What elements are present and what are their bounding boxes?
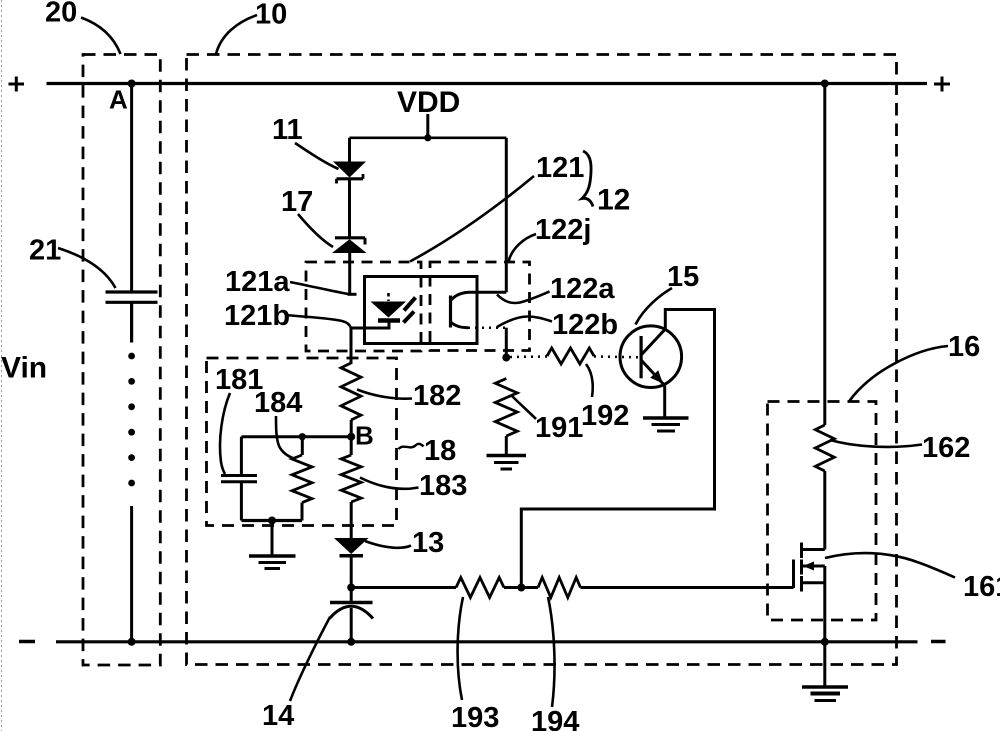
svg-text:122j: 122j [535,214,591,246]
resistor 191 [495,379,517,437]
wire diode 13 to node [350,556,353,588]
MOSFET Q161 [794,543,825,592]
wire resistor 162 to MOSFET drain [823,471,826,550]
node junction dot 193-194 [517,584,525,592]
leader for 17 [298,214,333,247]
svg-text:193: 193 [451,702,499,731]
zener diode 17 [332,238,367,253]
dashed box 121 [306,262,421,351]
wire ground stem [271,521,274,555]
wire 183 to diode 13 [350,502,353,538]
junction dot bottom middle [347,638,355,646]
wire node B horizontal [241,435,351,438]
leader for 121b [286,315,351,328]
LED 121a [371,302,407,321]
svg-text:B: B [355,421,374,451]
leader for 162 [830,440,922,447]
leader for 184 [276,416,294,459]
dotted continuation of cell stack 21 [128,353,135,487]
wire bottom of 181-184 [241,519,302,522]
minus sign left [19,640,35,644]
svg-text:121: 121 [536,152,584,184]
dashed box 10 [187,55,897,665]
wire top rail + [47,82,928,85]
dashed box 20 [83,55,160,666]
wire VDD stem [426,114,429,138]
leader for 122b [497,317,552,328]
wire collector up to VDD bus [505,138,508,292]
leader for 122j [509,234,537,262]
leader for 121a [290,282,348,294]
svg-text:18: 18 [424,435,456,467]
svg-text:20: 20 [45,0,77,29]
diode 11 [333,162,366,184]
brace for 12 [582,151,593,207]
leader for 161 [825,553,955,577]
svg-text:21: 21 [29,235,61,267]
ground below Q15 [643,418,689,431]
resistor 162 [815,425,834,471]
node junction dot above capacitor 14 [347,584,355,592]
transistor Q15 collector [521,310,714,588]
svg-text:183: 183 [419,470,467,502]
leader for 11 [295,143,339,169]
svg-text:121a: 121a [225,266,290,298]
LED light emission rays [404,298,416,323]
transistor Q15 emitter with arrow [641,360,665,386]
leader for 182 [357,390,412,399]
ground below 181-184 [249,556,296,569]
leader for 194 [548,597,555,707]
svg-text:192: 192 [581,400,629,432]
phototransistor collector lead [451,292,507,300]
wire emitter down [505,328,508,358]
node VDD junction dot [424,134,431,141]
leader for 16 [849,346,948,402]
dashed box 122j [430,262,530,351]
wire resistor 191 to ground [505,436,508,454]
leader for 183 [360,478,419,489]
wire dash-dot base line left [510,355,547,358]
svg-text:184: 184 [254,387,302,419]
svg-text:121b: 121b [224,300,290,332]
leader for 191 [512,396,536,419]
svg-text:162: 162 [922,432,970,464]
dashed box 18 [207,358,397,526]
resistor 184 [299,433,306,440]
resistor 183 [341,455,361,502]
svg-text:17: 17 [281,186,313,218]
plus sign left [9,77,25,92]
svg-text:161: 161 [963,571,1000,603]
leader for 181 [220,393,230,474]
LED 121a anode stub [387,293,390,301]
dashed box 16 [768,402,877,621]
leader for 121 [410,176,534,262]
svg-text:16: 16 [948,331,980,363]
resistor 194 [538,578,581,598]
wire bottom rail - [56,640,918,643]
resistor 193 [456,578,504,598]
wire capacitor 21 to bottom rail [130,506,133,642]
leader for 192 [586,364,593,397]
node junction dot ground tap [268,517,276,525]
wire diode 11 to zener 17 [348,179,351,238]
wire VDD horizontal bus [350,137,507,140]
wire node to resistor 193 [351,586,456,589]
MOSFET body arrow [803,562,814,571]
transistor Q15 circle [620,326,682,388]
wire between 193 and 194 [504,586,538,589]
resistor 192 [547,348,594,364]
svg-text:13: 13 [412,527,444,559]
svg-text:122b: 122b [552,309,618,341]
transistor Q15 base bar [639,336,642,378]
ground below MOSFET [802,687,848,701]
svg-text:194: 194 [531,706,579,731]
svg-text:122a: 122a [550,273,615,305]
svg-text:182: 182 [413,380,461,412]
leader for 21 [58,248,116,288]
svg-text:191: 191 [535,412,583,444]
node B junction dot [347,433,355,441]
svg-text:14: 14 [262,700,294,731]
wire gate line from resistor 194 [581,586,794,589]
diode 13 [334,538,369,556]
wire dash-dot base line right [594,355,641,358]
left scan border artifact [1,0,3,731]
capacitor 21 [106,292,158,343]
wire emitter to ground [663,386,666,418]
node emitter junction dot [502,354,510,362]
resistor 182 [341,363,361,420]
wire right branch from top rail [823,84,826,426]
wire 182 to node B to 183 [350,420,353,455]
wire zener 17 to optocoupler LED [348,253,351,294]
plus sign right [934,77,950,92]
wire VDD bus to diode 11 [348,138,351,162]
node A junction dot [128,80,136,88]
leader for 18 [399,444,424,449]
wire MOSFET source to bottom rail [823,566,826,642]
leader for 15 [636,288,673,325]
phototransistor emitter lead [451,322,469,328]
minus sign right [931,640,946,644]
capacitor 181 [240,437,243,474]
junction dot bottom left [128,638,136,646]
svg-text:10: 10 [255,0,287,31]
svg-text:12: 12 [597,184,630,217]
svg-text:A: A [109,85,128,115]
wire bottom rail to ground [823,642,826,686]
leader for 10 [216,15,257,54]
leader for 20 [81,18,121,55]
leader for 193 [458,597,463,700]
phototransistor 122 base bar [449,296,452,328]
leader for 14 [290,617,330,701]
svg-text:11: 11 [272,114,303,146]
optocoupler body U121 solid box [365,277,478,344]
wire node A to capacitor 21 [130,84,133,293]
wire LED cathode down [351,323,389,365]
ground below 191 [487,456,527,470]
capacitor 14 [350,588,353,602]
leader for 122a [497,292,550,304]
leader for 13 [365,541,411,548]
junction dot bottom right [821,638,829,646]
junction dot top right [821,80,829,88]
svg-text:Vin: Vin [1,352,47,385]
